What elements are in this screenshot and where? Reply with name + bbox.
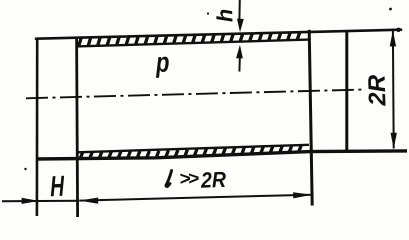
l dimension left arrowhead	[79, 198, 98, 204]
l dimension right arrowhead	[293, 192, 312, 198]
label l >> 2R (length)	[166, 171, 172, 187]
scan speck top right	[389, 8, 392, 11]
svg-text:H: H	[50, 171, 66, 203]
2R top arrowhead	[390, 30, 396, 46]
scan speck bottom left	[24, 168, 26, 170]
H leader line from left edge	[2, 200, 79, 203]
svg-text:h: h	[212, 8, 237, 22]
end blob on top extension line	[396, 28, 400, 32]
top film hatching	[79, 32, 300, 47]
tube inner right wall (l extension line)	[309, 30, 312, 206]
tube top wall with right extension line	[36, 30, 401, 39]
H left arrowhead	[22, 198, 39, 204]
h lower arrowhead	[236, 45, 243, 59]
2R dimension line	[392, 31, 395, 149]
bottom film inner rail	[77, 145, 309, 153]
svg-text:2R: 2R	[363, 74, 391, 108]
svg-text:p: p	[155, 47, 170, 78]
bottom film hatching	[80, 145, 301, 159]
svg-text:2R: 2R	[200, 167, 227, 193]
h lower arrow line	[238, 56, 241, 72]
h upper arrow line	[238, 0, 240, 21]
h upper arrowhead	[237, 19, 244, 33]
tube bottom wall with right extension line	[36, 151, 407, 159]
l dimension line	[79, 195, 312, 201]
axis center line (dash-dot)	[26, 90, 362, 99]
piston left wall (H extension line)	[36, 38, 39, 216]
tube outer right wall	[345, 30, 348, 152]
scan speck near h label	[207, 12, 209, 14]
piston right wall (H extension line)	[77, 38, 78, 217]
top film inner rail	[77, 40, 309, 47]
svg-text:>>: >>	[179, 168, 199, 190]
2R bottom arrowhead	[391, 133, 397, 149]
